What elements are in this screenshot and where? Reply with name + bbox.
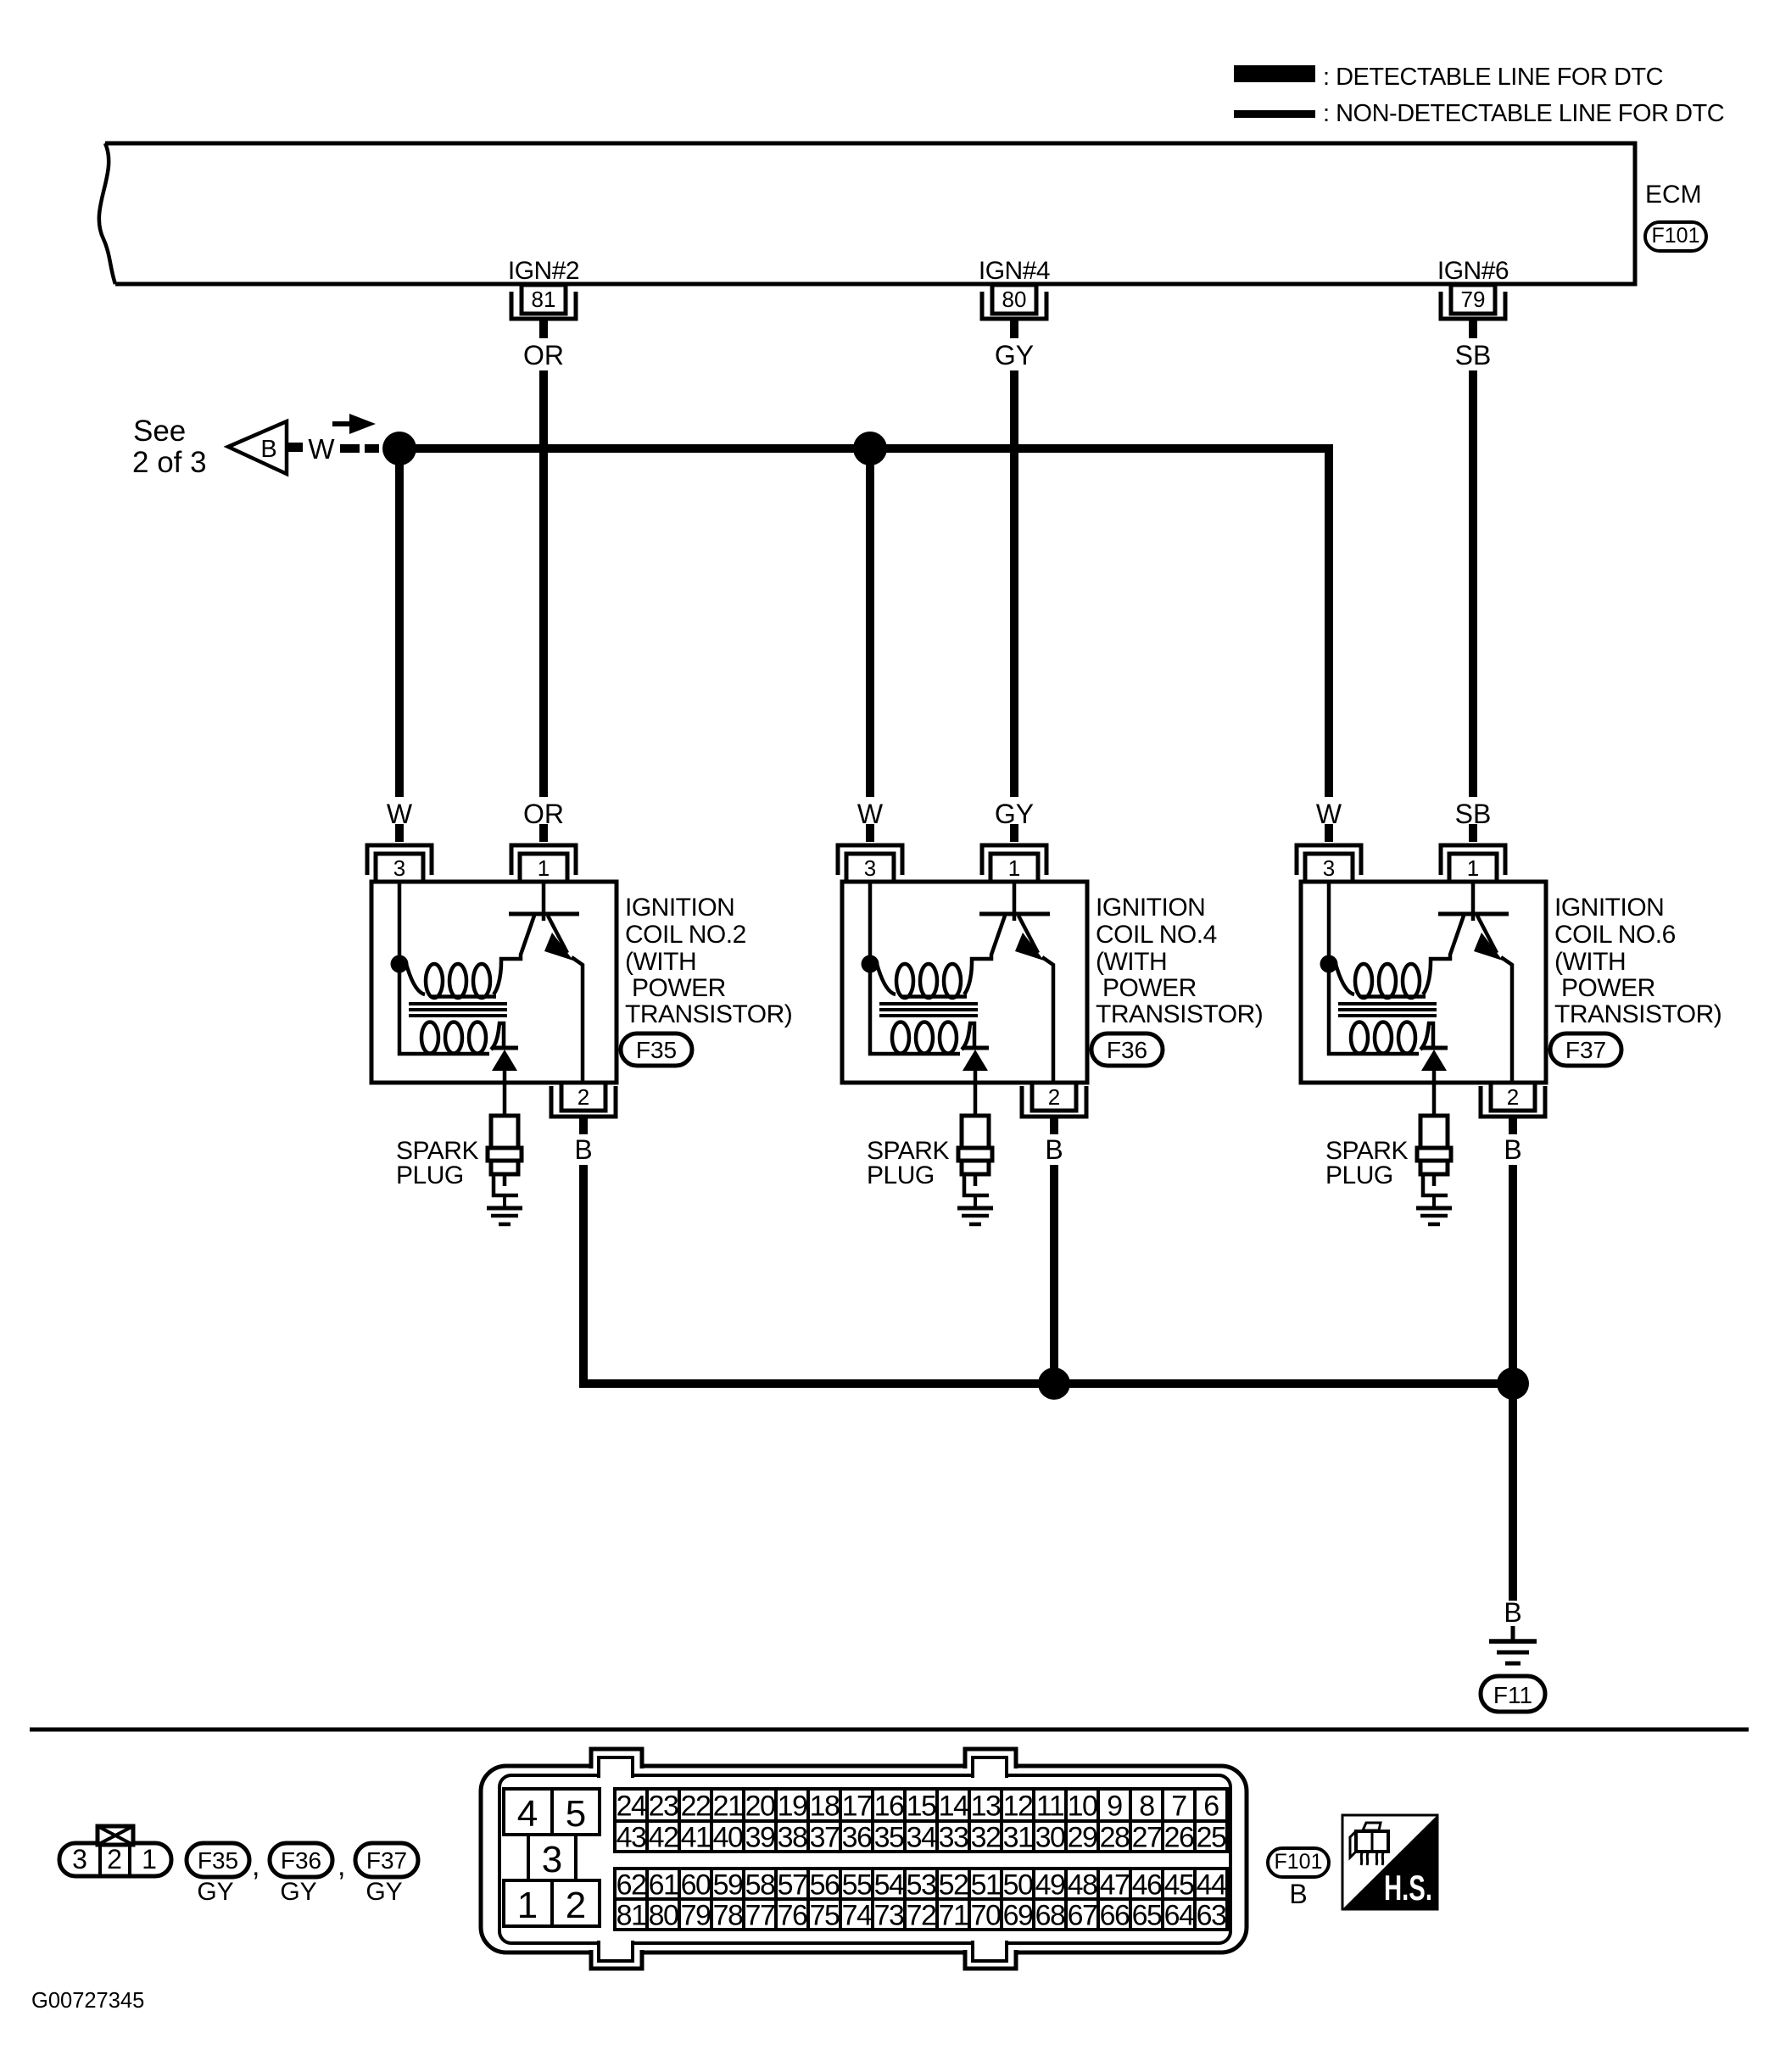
svg-text:3: 3 [393,855,405,881]
svg-text:43: 43 [617,1822,646,1854]
svg-text:21: 21 [713,1791,743,1823]
svg-text:F36: F36 [1107,1037,1147,1063]
svg-text:54: 54 [874,1869,904,1902]
svg-text:37: 37 [810,1822,840,1854]
svg-text:,: , [338,1850,345,1882]
svg-text:44: 44 [1197,1869,1226,1902]
svg-text:46: 46 [1132,1869,1162,1902]
svg-text:H.S.: H.S. [1384,1868,1432,1908]
svg-text:73: 73 [874,1900,904,1932]
svg-text:47: 47 [1100,1869,1130,1902]
svg-text:PLUG: PLUG [1325,1161,1393,1189]
svg-text:80: 80 [649,1900,678,1932]
svg-text:COIL NO.6: COIL NO.6 [1554,921,1676,949]
svg-text:IGN#6: IGN#6 [1437,257,1509,285]
svg-text:GY: GY [197,1878,233,1906]
svg-text:13: 13 [971,1791,1001,1823]
svg-text:25: 25 [1197,1822,1226,1854]
svg-text:59: 59 [713,1869,743,1902]
svg-text:F11: F11 [1493,1682,1532,1708]
svg-text:F101: F101 [1275,1850,1323,1874]
svg-text:POWER: POWER [1102,974,1197,1002]
svg-text:1: 1 [538,855,550,881]
svg-text:35: 35 [874,1822,904,1854]
svg-text:70: 70 [971,1900,1001,1932]
svg-text:GY: GY [365,1878,402,1906]
svg-text:: NON-DETECTABLE LINE FOR DTC: : NON-DETECTABLE LINE FOR DTC [1323,100,1724,127]
svg-text:POWER: POWER [632,974,726,1002]
svg-text:G00727345: G00727345 [31,1989,144,2013]
svg-text:See: See [133,415,186,448]
svg-text:67: 67 [1068,1900,1097,1932]
svg-text:45: 45 [1164,1869,1194,1902]
svg-text:B: B [1045,1134,1063,1165]
svg-text:3: 3 [72,1844,87,1874]
svg-text:SB: SB [1455,340,1492,370]
svg-text:36: 36 [842,1822,872,1854]
svg-text:B: B [1504,1134,1521,1165]
svg-text:COIL NO.4: COIL NO.4 [1096,921,1217,949]
svg-text:F35: F35 [636,1037,677,1063]
svg-text:64: 64 [1164,1900,1194,1932]
svg-text:27: 27 [1132,1822,1162,1854]
svg-text:PLUG: PLUG [867,1161,935,1189]
svg-text:50: 50 [1003,1869,1033,1902]
svg-text:4: 4 [517,1793,538,1835]
svg-text:78: 78 [713,1900,743,1932]
svg-text:1: 1 [1467,855,1479,881]
svg-text:65: 65 [1132,1900,1162,1932]
svg-text:2 of 3: 2 of 3 [132,446,207,479]
svg-text:GY: GY [995,340,1034,370]
svg-text:31: 31 [1003,1822,1033,1854]
svg-text:79: 79 [681,1900,711,1932]
svg-text:34: 34 [907,1822,936,1854]
svg-text:69: 69 [1003,1900,1033,1932]
svg-text:3: 3 [1323,855,1335,881]
svg-text:2: 2 [566,1885,586,1926]
svg-text:32: 32 [971,1822,1001,1854]
svg-text:OR: OR [523,340,564,370]
svg-text:TRANSISTOR): TRANSISTOR) [1554,1000,1721,1028]
svg-text:3: 3 [864,855,876,881]
svg-text:2: 2 [107,1844,122,1874]
svg-text:6: 6 [1203,1791,1219,1823]
svg-text:: DETECTABLE LINE FOR DTC: : DETECTABLE LINE FOR DTC [1323,64,1663,91]
svg-text:TRANSISTOR): TRANSISTOR) [1096,1000,1263,1028]
svg-text:81: 81 [617,1900,646,1932]
svg-text:1: 1 [142,1844,157,1874]
svg-text:41: 41 [681,1822,711,1854]
svg-text:56: 56 [810,1869,840,1902]
svg-text:2: 2 [1507,1084,1519,1110]
svg-text:23: 23 [649,1791,678,1823]
svg-text:52: 52 [939,1869,968,1902]
svg-text:79: 79 [1461,287,1486,312]
svg-text:GY: GY [280,1878,316,1906]
svg-text:B: B [574,1134,592,1165]
svg-text:14: 14 [939,1791,968,1823]
svg-text:ECM: ECM [1645,181,1702,209]
svg-text:26: 26 [1164,1822,1194,1854]
svg-text:COIL NO.2: COIL NO.2 [625,921,746,949]
svg-text:55: 55 [842,1869,872,1902]
svg-text:POWER: POWER [1561,974,1655,1002]
svg-text:18: 18 [810,1791,840,1823]
svg-text:17: 17 [842,1791,872,1823]
svg-text:30: 30 [1035,1822,1065,1854]
svg-text:1: 1 [517,1885,538,1926]
svg-text:72: 72 [907,1900,936,1932]
svg-text:71: 71 [939,1900,968,1932]
svg-text:IGNITION: IGNITION [625,894,734,922]
svg-text:20: 20 [745,1791,775,1823]
svg-text:74: 74 [842,1900,872,1932]
svg-text:57: 57 [778,1869,807,1902]
svg-text:1: 1 [1008,855,1020,881]
svg-text:F37: F37 [1565,1037,1606,1063]
svg-text:IGNITION: IGNITION [1554,894,1664,922]
svg-text:80: 80 [1002,287,1027,312]
svg-text:39: 39 [745,1822,775,1854]
svg-text:B: B [1289,1879,1307,1909]
svg-text:16: 16 [874,1791,904,1823]
svg-text:29: 29 [1068,1822,1097,1854]
svg-text:81: 81 [532,287,556,312]
svg-text:38: 38 [778,1822,807,1854]
svg-text:68: 68 [1035,1900,1065,1932]
svg-text:22: 22 [681,1791,711,1823]
svg-text:TRANSISTOR): TRANSISTOR) [625,1000,792,1028]
svg-text:53: 53 [907,1869,936,1902]
svg-text:2: 2 [578,1084,589,1110]
svg-text:10: 10 [1068,1791,1097,1823]
svg-text:(WITH: (WITH [625,948,696,976]
svg-text:F101: F101 [1652,224,1700,248]
svg-text:60: 60 [681,1869,711,1902]
svg-text:9: 9 [1107,1791,1122,1823]
svg-text:PLUG: PLUG [396,1161,464,1189]
svg-text:28: 28 [1100,1822,1130,1854]
svg-text:B: B [260,436,276,463]
svg-text:F36: F36 [281,1847,321,1874]
svg-text:63: 63 [1197,1900,1226,1932]
svg-text:7: 7 [1171,1791,1186,1823]
svg-text:8: 8 [1139,1791,1154,1823]
svg-text:W: W [308,433,335,465]
svg-text:12: 12 [1003,1791,1033,1823]
svg-text:,: , [252,1850,259,1882]
svg-text:51: 51 [971,1869,1001,1902]
svg-text:5: 5 [566,1793,586,1835]
svg-text:19: 19 [778,1791,807,1823]
svg-text:(WITH: (WITH [1554,948,1626,976]
svg-text:IGN#2: IGN#2 [508,257,579,285]
svg-text:B: B [1504,1597,1521,1628]
svg-text:58: 58 [745,1869,775,1902]
svg-text:(WITH: (WITH [1096,948,1167,976]
svg-text:IGN#4: IGN#4 [979,257,1050,285]
svg-text:15: 15 [907,1791,936,1823]
svg-text:66: 66 [1100,1900,1130,1932]
svg-text:75: 75 [810,1900,840,1932]
svg-text:IGNITION: IGNITION [1096,894,1205,922]
svg-text:77: 77 [745,1900,775,1932]
svg-text:F37: F37 [366,1847,407,1874]
svg-text:2: 2 [1048,1084,1060,1110]
svg-text:40: 40 [713,1822,743,1854]
svg-text:33: 33 [939,1822,968,1854]
svg-text:42: 42 [649,1822,678,1854]
svg-text:11: 11 [1036,1791,1064,1823]
svg-text:76: 76 [778,1900,807,1932]
svg-text:49: 49 [1035,1869,1065,1902]
svg-text:3: 3 [542,1839,562,1880]
svg-text:F35: F35 [198,1847,238,1874]
svg-text:61: 61 [649,1869,678,1902]
svg-text:48: 48 [1068,1869,1097,1902]
svg-text:24: 24 [617,1791,646,1823]
svg-text:62: 62 [617,1869,646,1902]
